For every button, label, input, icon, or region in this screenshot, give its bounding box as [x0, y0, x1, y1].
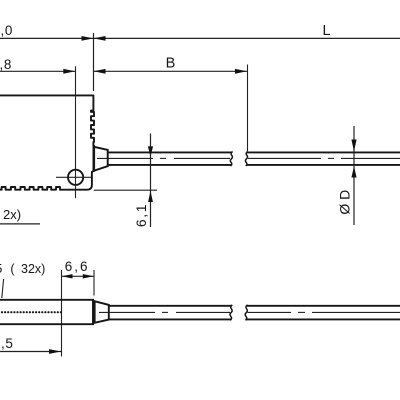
dimension line 6,6	[62, 275, 94, 277]
extension line x=247.5	[247, 65, 249, 152]
cable view2 centerline seg1	[99, 311, 230, 313]
cable view1 segment2 top	[247, 151, 400, 153]
svg-text:L: L	[323, 23, 331, 39]
body outline view1 bottom	[0, 171, 93, 190]
svg-text:6,1: 6,1	[133, 203, 149, 227]
cable view2 segment2 bottom	[246, 318, 400, 320]
arrow 6,6 left	[62, 274, 73, 278]
extension line x=93.5	[93, 33, 95, 91]
connector view1 body	[94, 147, 108, 171]
svg-text:B: B	[166, 55, 176, 71]
cable view1 centerline seg1	[97, 157, 230, 159]
arrow 31,0 right	[82, 36, 94, 41]
connector view1 left face	[93, 145, 96, 172]
svg-text:32x): 32x)	[21, 262, 45, 276]
dimension line B	[94, 70, 248, 72]
svg-text:6,6: 6,6	[65, 259, 90, 274]
arrow ØD down	[351, 140, 356, 152]
extension line y=190 (6,1)	[94, 189, 157, 191]
contact dots row (32x)	[1, 311, 62, 313]
leader underline (2x)	[0, 223, 40, 225]
arrow B left	[94, 69, 106, 74]
arrow B right	[235, 69, 247, 74]
arrow ØD up	[351, 166, 356, 177]
hole centerline vertical / extension 27,8	[75, 66, 77, 198]
dimension line ØD vertical	[353, 126, 355, 225]
arrow 27,8 right	[63, 69, 75, 74]
extension line x=94	[93, 270, 95, 296]
cable view1 centerline seg2	[248, 157, 400, 159]
dimension line 31,0 / L (full width)	[0, 37, 400, 39]
cable view2 break edge 1	[230, 305, 232, 320]
cable view1 break edge 2	[245, 152, 247, 166]
arrow 6,6 right	[83, 274, 94, 278]
svg-text:31,0: 31,0	[0, 23, 13, 38]
dimension line 6,1 vertical	[150, 134, 152, 228]
cable view2 centerline seg2	[248, 311, 400, 313]
dimension line 27,8	[0, 70, 75, 72]
arrow L left	[94, 36, 106, 41]
cable view1 segment1 bottom	[108, 164, 232, 166]
svg-text:Ø D: Ø D	[336, 190, 352, 215]
cable view1 break edge 1	[230, 152, 232, 166]
svg-text:24,5: 24,5	[0, 336, 14, 351]
dimension line 24,5	[0, 351, 61, 353]
arrow 24,5 right	[49, 349, 61, 354]
svg-text:2x): 2x)	[3, 207, 21, 222]
extension line x=61.5	[61, 270, 63, 357]
cable view2 segment1 top	[109, 305, 232, 307]
cable view2 segment2 top	[247, 305, 400, 307]
body view2 outline	[0, 300, 93, 324]
cable view1 segment2 bottom	[247, 164, 400, 166]
svg-text:5: 5	[0, 261, 2, 276]
body outline view1 top	[0, 95, 94, 146]
hole centerline horizontal	[56, 176, 91, 178]
svg-text:27,8: 27,8	[0, 57, 12, 72]
mounting hole circle	[68, 170, 83, 185]
connector view2 left face	[93, 301, 96, 324]
cable view2 segment1 bottom	[109, 318, 231, 320]
cable view2 break edge 2	[245, 305, 247, 320]
connector view2 body	[95, 301, 109, 323]
leader line 32x	[2, 279, 4, 298]
arrow 6,1 up	[148, 191, 153, 202]
cable view1 segment1 top	[108, 151, 232, 153]
arrow 6,1 down	[148, 146, 153, 156]
